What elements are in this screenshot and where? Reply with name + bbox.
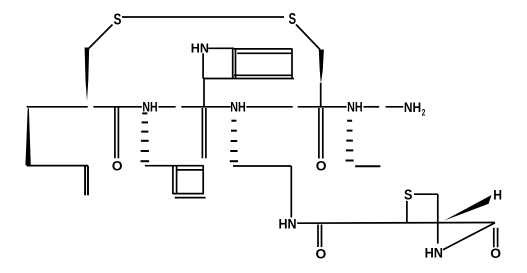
bond N-C diagonal: [443, 223, 495, 250]
bond S-C ring left edge: [406, 201, 408, 223]
benzo top outer edge: [234, 48, 293, 50]
backbone segment 3: [158, 106, 175, 108]
atom NH2 (terminal hydrazide): [404, 99, 425, 118]
svg-text:2: 2: [422, 108, 426, 118]
bond hashed wedge (below NH 1): [141, 113, 150, 161]
backbone segment 8: [386, 106, 404, 108]
bond ethyl stub: [355, 165, 380, 167]
svg-text:O: O: [316, 158, 327, 174]
bond C=O double (backbone right carbonyl): [318, 108, 320, 159]
atom S (thiazolidine): [404, 187, 412, 204]
atom O (right bottom carbonyl): [490, 245, 501, 261]
bond ring right edge: [437, 194, 439, 222]
svg-text:H: H: [493, 186, 502, 202]
backbone segment 7: [364, 106, 380, 108]
bond wedge tail (right): [320, 83, 322, 107]
benzo bottom outer edge: [234, 74, 293, 76]
atom NH (amide 2): [230, 99, 246, 114]
bond C=C double (below backbone, Trp): [201, 108, 203, 158]
svg-text:O: O: [316, 245, 327, 261]
atom HN (thiazolidine amide): [425, 245, 443, 260]
bond hashed wedge (below NH 2): [230, 121, 238, 162]
bond stereo wedge to H: [444, 195, 492, 221]
svg-text:HN: HN: [279, 216, 297, 232]
svg-text:S: S: [404, 187, 412, 204]
atom NH (amide 3): [347, 99, 363, 114]
bond N-C2 (indole top): [208, 47, 234, 49]
benzo right edge: [291, 49, 293, 78]
bond S-CH2 (ring top): [414, 193, 438, 195]
phenyl ring right edge: [202, 166, 204, 195]
phenyl ring left double bond: [172, 166, 174, 195]
atom HN (bottom amide): [279, 216, 297, 232]
svg-text:O: O: [490, 245, 501, 261]
bond hashed wedge (below NH 3): [346, 121, 354, 161]
phenyl ring offset bottom double bond: [175, 197, 206, 199]
svg-text:NH: NH: [230, 99, 246, 114]
svg-text:HN: HN: [191, 41, 209, 56]
phenyl ring bottom edge: [173, 193, 204, 195]
atom O (bottom amide): [316, 245, 327, 261]
backbone segment 5: [246, 106, 292, 108]
bond S1-S2 (disulfide bridge): [122, 16, 284, 18]
svg-text:HN: HN: [425, 245, 443, 260]
bond CH2 vertical down: [290, 166, 292, 218]
svg-text:NH: NH: [404, 99, 421, 115]
svg-text:NH: NH: [347, 99, 363, 114]
bond C-N vertical (ring to HN): [437, 222, 439, 243]
atom O (right carbonyl): [316, 158, 327, 174]
bond S2-CH2 (diagonal): [296, 25, 320, 50]
bond C=O double (right bottom carbonyl): [493, 228, 495, 248]
bond S1-CH2 (diagonal): [88, 25, 113, 50]
bond C=O double (bottom amide): [317, 225, 319, 248]
backbone segment 2: [93, 106, 141, 108]
bond long bottom chain N-C(=O)-C ring: [297, 222, 495, 225]
benzo top inner line: [237, 52, 291, 54]
bond CH2-Ca wedge (right, solid down): [319, 50, 324, 85]
bond C=C double (left bottom): [84, 166, 86, 195]
atom S2 (right disulfide sulfur): [289, 11, 297, 28]
atom NH (amide 1): [142, 99, 157, 114]
bond indole fusion double: [232, 49, 234, 79]
svg-text:S: S: [114, 11, 122, 28]
phenyl ring inner top line: [177, 169, 204, 171]
svg-text:NH: NH: [142, 99, 157, 114]
backbone segment 6: [298, 106, 347, 108]
bond CH2-Ca wedge (left, solid down): [85, 48, 90, 102]
bond N-C (indole left stem): [202, 53, 204, 78]
atom O (left carbonyl): [112, 158, 123, 174]
svg-text:S: S: [289, 11, 297, 28]
bond indole bottom long edge: [203, 78, 294, 80]
atom S1 (left disulfide sulfur): [114, 11, 122, 28]
bond Ca-CH2 wedge (leftmost residue, down): [25, 108, 30, 165]
backbone segment 1: [27, 106, 88, 108]
atom HN (indole nitrogen): [191, 41, 209, 56]
bond CH2-CH (left bottom horizontal): [27, 165, 89, 167]
bond indole CH2 stem to backbone: [203, 79, 205, 108]
svg-text:O: O: [112, 158, 123, 174]
backbone segment 4: [181, 106, 231, 108]
atom H (stereo): [493, 186, 502, 202]
bond side chain horizontal (to CH2): [233, 165, 291, 167]
bond CH2-phenyl approach + ring top edge: [145, 165, 204, 167]
bond C=O double (left carbonyl): [114, 108, 116, 159]
